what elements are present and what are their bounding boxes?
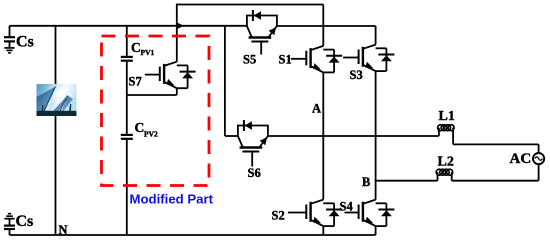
svg-text:S5: S5 (243, 53, 256, 67)
wire S6 left lead (225, 135, 238, 137)
transistor S1 (IGBT with antiparallel diode) (291, 46, 342, 73)
wire riser node P to top bus (176, 4, 178, 26)
transistor S3 (IGBT with antiparallel diode) (343, 45, 394, 72)
wire leg B upper (DC+ bus to S3 collector) (375, 26, 377, 45)
wire top bus W0 (177, 4, 323, 6)
svg-text:AC: AC (510, 151, 532, 167)
wire leg A lower (S2 emitter to N bus) (322, 226, 324, 235)
svg-text:L1: L1 (439, 109, 455, 124)
wire leg B lower (S4 emitter to N bus) (375, 226, 377, 235)
modified part dashed box (102, 36, 210, 186)
svg-text:A: A (312, 101, 321, 115)
svg-text:S2: S2 (272, 209, 285, 223)
wire N bus (bottom) (10, 234, 376, 236)
wire DC+ bus left segment (10, 25, 247, 27)
wire leg B middle (S3 to node B to S4) (375, 71, 377, 200)
inductor L1 (438, 125, 455, 145)
wire node A bus (S6 to L1) (268, 135, 439, 137)
capacitor Cs (bottom) (4, 219, 15, 235)
transistor S5 (rotated IGBT with antiparallel diode) (247, 10, 277, 55)
AC source (533, 153, 544, 164)
inductor L2 (436, 169, 453, 181)
transistor S7 (IGBT with antiparallel diode) (145, 26, 196, 95)
svg-text:L2: L2 (438, 155, 454, 170)
wire AC riser top (538, 144, 540, 153)
wire CPV rail middle (CPV1 to CPV2) (126, 62, 128, 134)
svg-text:S1: S1 (279, 52, 292, 66)
wire L1 to AC top (453, 143, 538, 145)
svg-text:B: B (362, 175, 370, 189)
ground (top Cs) (4, 48, 14, 53)
wire S7 emitter return (127, 94, 177, 96)
svg-text:S3: S3 (350, 68, 363, 82)
svg-text:PV2: PV2 (144, 129, 158, 138)
transistor S6 (rotated IGBT with antiparallel diode) (238, 120, 268, 167)
svg-text:C: C (135, 120, 145, 135)
wire S6 tap rail (224, 26, 226, 136)
wire leg A middle (S1 to node A to S2) (322, 72, 324, 199)
wire AC riser bottom (538, 164, 540, 181)
svg-text:Modified Part: Modified Part (130, 192, 214, 207)
svg-text:N: N (59, 223, 68, 237)
svg-text:Cs: Cs (16, 213, 34, 230)
PV panel image (37, 84, 77, 116)
node P arrow (current direction) (178, 23, 185, 29)
capacitor CPV1 (121, 57, 133, 61)
wire PV rail (vertical) (55, 26, 57, 235)
label CPV2 (135, 120, 158, 139)
capacitor CPV2 (121, 135, 133, 139)
ground (bottom Cs, inverted) (4, 214, 14, 219)
capacitor Cs (top) (4, 26, 15, 48)
svg-text:S7: S7 (129, 75, 142, 89)
transistor S2 (IGBT with antiparallel diode) (288, 200, 342, 227)
svg-text:S6: S6 (248, 166, 261, 180)
label CPV1 (131, 40, 154, 57)
wire L2 to AC bottom (452, 180, 539, 182)
wire node B to L2 (376, 180, 438, 182)
wire CPV rail top (DC+ to CPV1) (126, 26, 128, 56)
svg-text:S4: S4 (340, 200, 354, 214)
svg-text:PV1: PV1 (141, 48, 155, 57)
wire CPV rail bottom (CPV2 to N bus) (126, 140, 128, 235)
transistor S4 (IGBT with antiparallel diode) (345, 200, 395, 227)
wire DC+ bus right segment (S5 to leg B top) (277, 25, 376, 27)
wire leg A upper (top bus to S1 collector) (322, 5, 324, 46)
svg-text:C: C (131, 40, 141, 55)
svg-text:Cs: Cs (16, 34, 34, 51)
